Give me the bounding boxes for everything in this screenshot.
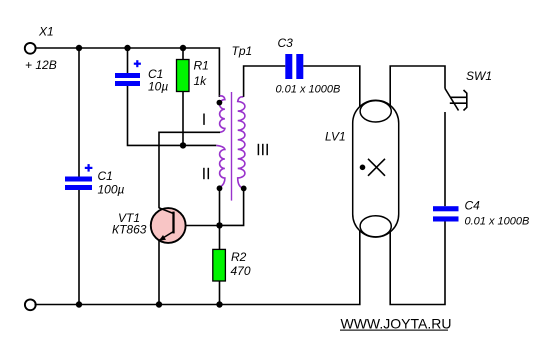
wire top bus from X1 to transformer xyxy=(35,48,220,97)
wire C3 to lamp top left pin xyxy=(303,66,360,109)
wire SW1 bottom to C4 xyxy=(444,112,446,206)
lamp LV1 cross xyxy=(368,159,385,176)
wire base node to R2 xyxy=(219,225,221,249)
wire left branch C1-100u upper xyxy=(78,48,80,177)
transistor VT1 collector stroke xyxy=(159,208,174,214)
wire R1 top xyxy=(182,48,184,60)
polarity plus of C1 10u xyxy=(134,60,141,67)
label C3 value xyxy=(276,84,341,96)
wire C4 bottom to lamp bottom right pin xyxy=(390,222,445,305)
transistor VT1 base bar xyxy=(172,212,174,234)
svg-text:10µ: 10µ xyxy=(148,80,168,94)
wire winding III bottom to base node xyxy=(220,188,244,225)
svg-text:SW1: SW1 xyxy=(466,69,492,83)
wire winding III top to C3 xyxy=(244,66,286,97)
junction dot R1 bottom node xyxy=(180,142,186,148)
svg-text:C1: C1 xyxy=(98,169,113,183)
label X1 xyxy=(38,25,54,39)
wire R2 bottom xyxy=(219,281,221,305)
label winding I xyxy=(203,114,205,125)
polarity plus of C1 100u xyxy=(85,164,93,172)
lamp LV1 indicator dot xyxy=(360,165,366,171)
svg-text:LV1: LV1 xyxy=(325,130,346,144)
label R1 1k xyxy=(194,59,209,89)
label +12V xyxy=(25,58,57,72)
svg-text:470: 470 xyxy=(231,264,251,278)
phase dot winding II xyxy=(217,185,223,191)
wire C1-10u upper xyxy=(127,48,129,73)
svg-text:0.01 x 1000В: 0.01 x 1000В xyxy=(276,84,341,96)
wire VT1 emitter to bottom bus xyxy=(158,241,160,305)
lamp LV1 bottom electrode ellipse xyxy=(360,216,391,237)
junction dot bottom bus R2 xyxy=(216,301,222,307)
wire winding I bottom to VT1 collector xyxy=(159,132,220,208)
label winding II xyxy=(204,168,208,179)
label winding III xyxy=(258,144,267,155)
lamp LV1 tube xyxy=(353,100,399,237)
svg-text:0.01 x 1000В: 0.01 x 1000В xyxy=(465,216,530,228)
label SW1 xyxy=(466,69,492,83)
phase dot winding I xyxy=(217,100,223,106)
label VT1 KT863 xyxy=(112,211,147,237)
junction dot top bus middle xyxy=(124,45,130,51)
svg-text:X1: X1 xyxy=(38,25,54,39)
junction dot top bus right xyxy=(180,45,186,51)
svg-text:1k: 1k xyxy=(194,74,208,88)
junction dot base node xyxy=(216,222,222,228)
label C4 xyxy=(465,199,481,213)
svg-text:100µ: 100µ xyxy=(98,183,125,197)
wire lamp top right pin to SW1 xyxy=(390,66,445,108)
label C1 10u xyxy=(148,67,168,94)
label Tp1 xyxy=(232,44,253,58)
svg-text:+ 12В: + 12В xyxy=(25,58,57,72)
junction dot bottom bus emitter xyxy=(156,301,162,307)
resistor R1 xyxy=(177,60,190,92)
switch SW1 actuator xyxy=(450,90,467,111)
wire winding II bottom to base node xyxy=(219,188,221,226)
svg-text:Tp1: Tp1 xyxy=(232,44,253,58)
terminal X1 xyxy=(25,43,36,54)
wire R1 bottom xyxy=(182,92,184,146)
svg-text:C3: C3 xyxy=(278,36,294,50)
transformer winding I xyxy=(220,96,225,132)
label LV1 xyxy=(325,130,346,144)
junction dot bottom bus left xyxy=(76,301,82,307)
transformer winding III xyxy=(238,97,245,188)
label C4 value xyxy=(465,216,530,228)
label R2 470 xyxy=(231,250,251,278)
svg-text:C4: C4 xyxy=(465,199,481,213)
phase dot winding III xyxy=(241,186,247,192)
wire left branch C1-100u lower xyxy=(78,190,80,305)
terminal X2 xyxy=(25,299,36,310)
capacitor C3 xyxy=(285,54,303,79)
capacitor C1 100u xyxy=(65,177,92,191)
transformer winding II xyxy=(216,145,225,187)
svg-text:R1: R1 xyxy=(194,59,209,73)
switch SW1 blade xyxy=(445,89,459,111)
svg-text:R2: R2 xyxy=(231,250,247,264)
transistor VT1 body xyxy=(151,208,186,243)
wire bottom bus xyxy=(35,229,360,305)
capacitor C4 xyxy=(433,206,459,221)
wire VT1 base lead xyxy=(174,225,220,227)
svg-text:КТ863: КТ863 xyxy=(112,223,147,237)
resistor R2 xyxy=(213,249,226,281)
junction dot top bus left xyxy=(76,45,82,51)
watermark www.joyta.ru xyxy=(340,315,451,331)
wire C1-10u lower to winding II top xyxy=(128,86,217,145)
transformer core xyxy=(231,92,233,201)
svg-text:WWW.JOYTA.RU: WWW.JOYTA.RU xyxy=(341,315,452,331)
label C3 xyxy=(278,36,294,50)
lamp LV1 top electrode ellipse xyxy=(360,101,391,122)
capacitor C1 10u xyxy=(115,73,140,86)
transistor VT1 emitter stroke with arrow xyxy=(159,232,174,241)
label C1 100u xyxy=(98,169,125,197)
